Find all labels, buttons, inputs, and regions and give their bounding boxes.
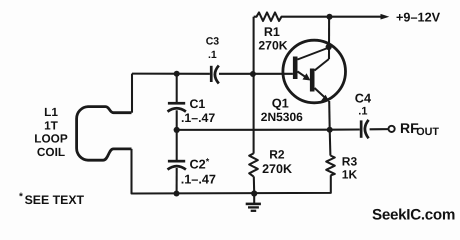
svg-text:2N5306: 2N5306	[261, 110, 303, 124]
svg-text:1K: 1K	[342, 168, 358, 182]
svg-text:L1: L1	[44, 105, 58, 119]
svg-text:LOOP: LOOP	[34, 132, 68, 146]
svg-text:R1: R1	[264, 25, 280, 39]
svg-text:.1: .1	[208, 49, 217, 61]
svg-text:*: *	[19, 192, 23, 203]
svg-text:.1–.47: .1–.47	[181, 111, 215, 125]
svg-text:.1: .1	[358, 105, 367, 117]
svg-text:R3: R3	[342, 154, 358, 168]
svg-text:COIL: COIL	[37, 145, 65, 159]
svg-text:OUT: OUT	[416, 126, 439, 138]
svg-text:270K: 270K	[262, 162, 292, 176]
svg-text:SEE TEXT: SEE TEXT	[25, 193, 85, 207]
svg-text:C4: C4	[355, 92, 371, 106]
svg-text:.1–.47: .1–.47	[181, 173, 216, 187]
svg-text:+9–12V: +9–12V	[396, 11, 441, 25]
svg-text:SeekIC.com: SeekIC.com	[372, 206, 455, 223]
svg-text:1T: 1T	[44, 118, 59, 132]
svg-text:C1: C1	[190, 97, 206, 111]
svg-text:C3: C3	[206, 36, 220, 48]
svg-text:270K: 270K	[258, 39, 287, 53]
svg-text:R2: R2	[269, 148, 285, 162]
svg-text:Q1: Q1	[272, 96, 289, 111]
